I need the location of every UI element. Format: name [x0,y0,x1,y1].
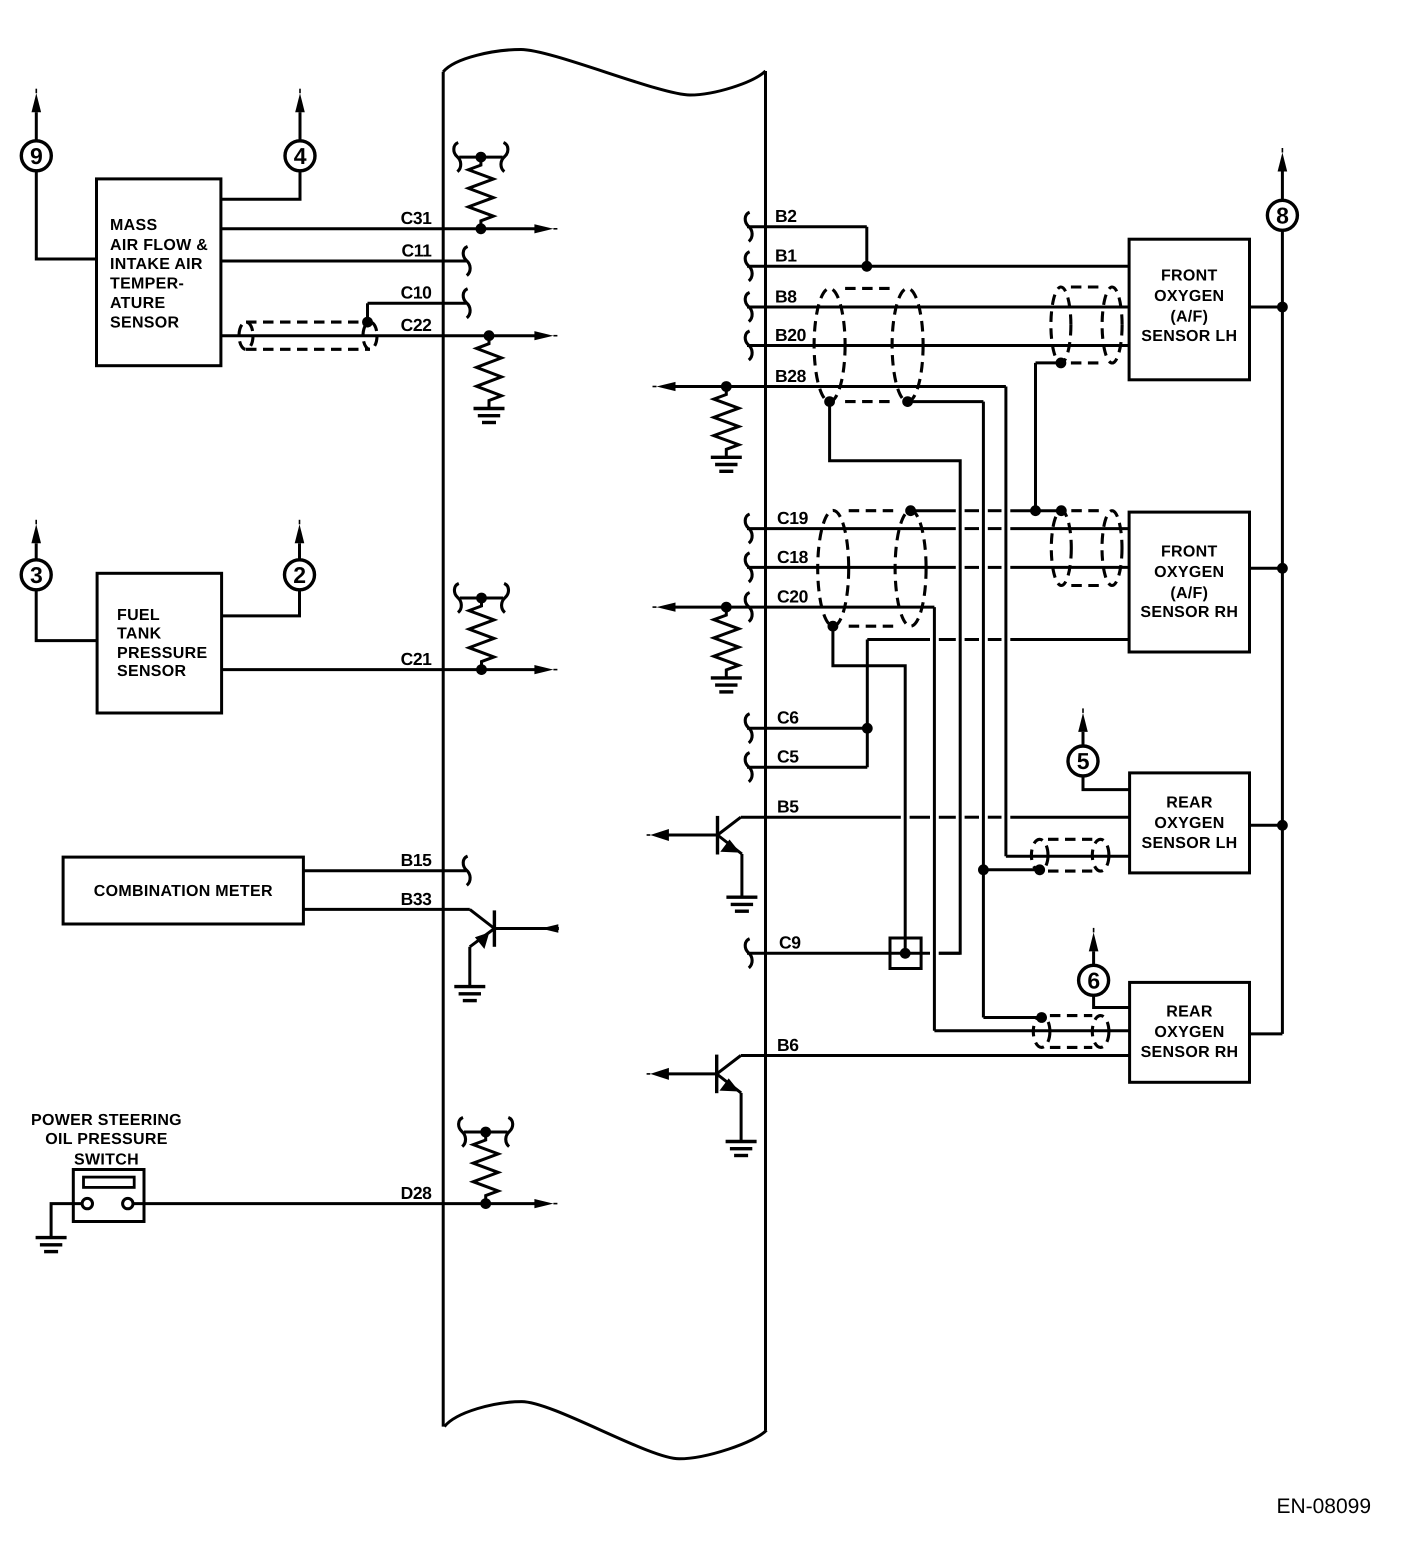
node: bus junction FRONT RH [1277,563,1288,574]
wire: MASS AIR FLOW sensor to circle 4 [221,170,300,199]
svg-text:B33: B33 [401,889,433,909]
svg-text:C22: C22 [401,315,433,335]
svg-text:(A/F): (A/F) [1170,309,1208,326]
svg-text:TANK: TANK [117,626,162,643]
svg-text:OXYGEN: OXYGEN [1154,564,1224,581]
wire C11 [221,260,466,263]
svg-text:POWER STEERING: POWER STEERING [31,1112,182,1129]
label B20 [775,325,807,345]
svg-text:FRONT: FRONT [1161,267,1218,284]
svg-text:OXYGEN: OXYGEN [1154,1024,1224,1041]
wire: REAR LH shield line [1006,855,1130,858]
label C21 [401,649,433,669]
circled 2 [285,560,315,590]
ECM connector band (torn vertical strip) [443,50,766,1459]
power arrow 5 [1078,708,1088,746]
svg-text:SENSOR LH: SENSOR LH [1141,328,1237,345]
wire: shield1 right drain bus [908,402,984,1018]
svg-text:FUEL: FUEL [117,607,160,624]
wire: shield5 drain to bus [983,868,1039,871]
wire C6 [747,727,867,730]
block: POWER STEERING OIL PRESSURE SWITCH [31,1112,182,1222]
svg-text:REAR: REAR [1166,795,1213,812]
transistor Q1 (B33 driver) [470,909,559,986]
wire: C6/C5 to FRONT RH heater [867,638,1129,641]
circled 3 [21,560,51,590]
svg-text:B28: B28 [775,366,807,386]
block: FRONT OXYGEN (A/F) SENSOR LH [1129,239,1249,380]
wire: shield6 drain from bus [983,1016,1041,1019]
joint connector (shield to C9) [890,938,921,969]
svg-text:B15: B15 [401,850,433,870]
break squiggle C20 [745,593,752,622]
break squiggle B2 [745,212,752,241]
svg-text:C31: C31 [401,208,433,228]
break squiggle C6 [745,714,752,743]
svg-text:(A/F): (A/F) [1170,585,1208,602]
svg-text:C21: C21 [401,649,433,669]
label C18 [777,547,809,567]
wire C10 (shield drain to ECM) [368,303,467,322]
connector joint above C31 resistor [454,143,508,172]
node: C6-C5 junction [862,723,873,734]
block: COMBINATION METER [63,857,303,924]
label B8 [775,286,797,306]
break squiggle B20 [745,331,752,360]
node: B28 junction [721,381,732,392]
figure number EN-08099 [1276,1495,1371,1518]
shield around C22 wire [239,322,377,349]
svg-text:C19: C19 [777,508,809,528]
circled 4 [285,141,315,171]
node: shield1 right drain [902,396,913,407]
wire C20 (to rear RH sensor signal) [653,603,1130,1031]
wire C9 [747,952,960,955]
svg-text:SENSOR RH: SENSOR RH [1141,1044,1239,1061]
wire B28 (output with pull-down) [653,382,1006,856]
svg-text:D28: D28 [401,1183,433,1203]
svg-text:PRESSURE: PRESSURE [117,645,207,662]
svg-text:FRONT: FRONT [1161,544,1218,561]
ground (Q2 emitter) [726,897,757,911]
svg-text:4: 4 [294,143,307,169]
label B1 [775,246,797,266]
node: bus junction FRONT LH [1277,302,1288,313]
node: shield1 left drain [824,396,835,407]
svg-text:OXYGEN: OXYGEN [1154,815,1224,832]
svg-text:SENSOR: SENSOR [110,315,180,332]
wire B5 [741,816,1130,819]
svg-text:COMBINATION METER: COMBINATION METER [94,883,273,900]
label C31 [401,208,433,228]
svg-text:B20: B20 [775,325,807,345]
wire B15 [303,869,466,872]
label C22 [401,315,433,335]
connector joint above D28 resistor [459,1117,513,1146]
node: drain tie mid [1030,505,1041,516]
node: drain tie right [1056,505,1067,516]
wire C22 (MAF ground through shield) [221,331,558,340]
svg-text:C9: C9 [779,933,801,953]
svg-text:INTAKE AIR: INTAKE AIR [110,256,203,273]
shield around B8/B20 (ECM side) [814,288,923,401]
wire: shield1 left drain to C9 node [830,402,961,954]
break squiggle C18 [745,553,752,582]
transistor Q3 (B6 driver) [647,1055,742,1142]
label D28 [401,1183,433,1203]
break squiggle C5 [745,753,752,782]
resistor (C22 to ground) [477,336,502,409]
transistor Q2 (B5 driver) [647,816,742,897]
wire B2 [747,227,867,266]
node: bus junction REAR LH [1277,820,1288,831]
svg-text:B8: B8 [775,286,797,306]
svg-text:REAR: REAR [1166,1003,1213,1020]
label C20 [777,587,809,607]
wire: bus 8 vertical [1281,230,1284,1034]
wire: circle 6 to REAR RH [1094,995,1130,1008]
svg-text:B5: B5 [777,797,799,817]
resistor (C31 pull-up) [468,157,493,229]
label B5 [777,797,799,817]
circled 9 [21,141,51,171]
block: FUEL TANK PRESSURE SENSOR [97,573,222,713]
break squiggle C19 [745,514,752,543]
label C11 [402,240,433,260]
shield around REAR LH wire [1031,839,1109,871]
label B6 [777,1035,799,1055]
wire: circle 3 to FUEL TANK PRESSURE SENSOR [36,589,97,640]
break squiggle C11 [463,246,470,275]
wire B6 [741,1054,1130,1057]
node: shield5 drain [1034,864,1045,875]
svg-text:B1: B1 [775,246,797,266]
break squiggle B15 [463,856,470,885]
node: drain bus junction [978,864,989,875]
ground (Q3 emitter) [726,1142,757,1156]
node: shield drain to C10 [362,317,373,328]
label C9 [779,933,801,953]
svg-text:C10: C10 [401,283,433,303]
svg-text:SWITCH: SWITCH [74,1152,139,1169]
wire B8 [747,306,1129,309]
svg-text:6: 6 [1087,968,1100,994]
shield around C19/C18 (ECM side) [818,510,926,626]
node: D28 junction [480,1198,491,1209]
circled 8 [1267,200,1297,230]
svg-text:3: 3 [30,562,43,588]
svg-text:8: 8 [1276,203,1289,229]
svg-text:OIL PRESSURE: OIL PRESSURE [45,1131,167,1148]
block: REAR OXYGEN SENSOR RH [1130,982,1250,1082]
wire B20 [747,344,1129,347]
wire C18 [747,566,1129,569]
node: drain tie left [905,505,916,516]
circled 6 [1079,965,1109,995]
svg-text:TEMPER-: TEMPER- [110,276,184,293]
block: FRONT OXYGEN (A/F) SENSOR RH [1129,512,1249,652]
label C5 [777,747,799,767]
block: REAR OXYGEN SENSOR LH [1130,773,1250,873]
svg-text:C5: C5 [777,747,799,767]
label B28 [775,366,807,386]
block: MASS AIR FLOW & INTAKE AIR TEMPERATURE SENSOR [97,179,221,366]
label C19 [777,508,809,528]
wire: circle 9 to MASS AIR FLOW sensor [36,170,96,259]
svg-text:B2: B2 [775,206,797,226]
svg-text:C20: C20 [777,587,809,607]
label C10 [401,283,433,303]
resistor (D28 pull-up) [473,1132,498,1204]
wire C19 [747,527,1129,530]
svg-text:5: 5 [1077,748,1090,774]
power arrow 9 (to fig. 9) [32,89,42,142]
ground (B28 resistor) [711,457,742,471]
node: C31 junction [476,223,487,234]
svg-text:EN-08099: EN-08099 [1276,1495,1371,1518]
break squiggle C9 [745,939,752,968]
svg-text:2: 2 [293,562,306,588]
ground (C20 resistor) [711,678,742,692]
svg-text:9: 9 [30,143,43,169]
wire: shield drain tie line (C19 level) [911,509,1062,512]
wire C31 (MAF signal to ECM) [221,224,558,233]
power arrow 6 [1089,928,1099,966]
wire C5 [747,640,867,768]
power arrow 4 (to fig. 4) [295,89,305,142]
svg-text:B6: B6 [777,1035,799,1055]
node: shield6 drain [1036,1012,1047,1023]
wire: FRONT LH to bus 8 [1250,306,1283,309]
wire: FRONT RH to bus 8 [1250,567,1283,570]
wire: FUEL TANK PRESSURE SENSOR to circle 2 [222,589,300,616]
wire: shield3 drain to joint connector [833,626,905,948]
label B15 [401,850,433,870]
label B33 [401,889,433,909]
shield around REAR RH wire [1033,1016,1109,1048]
ground (C22 resistor) [474,409,505,423]
svg-text:SENSOR LH: SENSOR LH [1141,835,1237,852]
ground (Q1 emitter) [454,987,485,1001]
ground (power steering switch) [36,1238,67,1252]
wire: REAR LH to bus 8 [1250,824,1283,827]
svg-text:ATURE: ATURE [110,295,165,312]
svg-text:SENSOR RH: SENSOR RH [1140,604,1238,621]
circled 5 [1068,746,1098,776]
wire: circle 5 to REAR LH [1083,776,1130,790]
wire B33 [303,908,469,911]
node: shield2 drain [1056,358,1067,369]
wire C21 [222,665,558,674]
svg-text:MASS: MASS [110,217,157,234]
node: C22 junction [484,330,495,341]
resistor (C20 pull-down) [714,607,739,678]
power arrow 8 [1278,148,1288,201]
power arrow 2 [295,520,305,560]
shield around C19/C18 (sensor side) [1051,511,1122,586]
break squiggle B1 [745,252,752,281]
wire: bus 8 to REAR RH [1250,1032,1283,1035]
wire D28 [133,1199,557,1208]
label B2 [775,206,797,226]
label C6 [777,708,799,728]
svg-text:C18: C18 [777,547,809,567]
svg-text:C11: C11 [402,240,433,260]
resistor (B28 pull-down) [714,387,739,458]
node: joint connector dot [900,948,911,959]
wire: shield2 drain down [1036,363,1061,511]
connector joint above C21 resistor [454,583,508,612]
wire B1 [747,265,1129,268]
node: B2-B1 junction [861,261,872,272]
node: shield3 bottom drain [828,621,839,632]
svg-text:AIR FLOW &: AIR FLOW & [110,237,208,254]
node: C20 junction [721,602,732,613]
resistor (C21 pull-up) [469,598,494,670]
svg-text:OXYGEN: OXYGEN [1154,288,1224,305]
node: C21 junction [476,664,487,675]
power arrow 3 [31,520,41,560]
wire: switch to ground [51,1204,82,1238]
break squiggle B8 [745,292,752,321]
svg-text:C6: C6 [777,708,799,728]
break squiggle C10 [463,289,470,318]
shield around B8/B20 (sensor side) [1051,287,1122,363]
svg-text:SENSOR: SENSOR [117,663,187,680]
